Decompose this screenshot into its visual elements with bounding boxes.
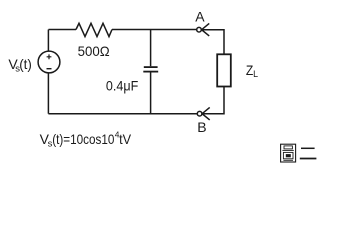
voltage source Vs circle <box>38 51 60 73</box>
svg-text:(t)=10cos10: (t)=10cos10 <box>52 131 114 147</box>
value label 500 ohm <box>78 43 110 59</box>
minus sign inside source <box>47 68 52 70</box>
wire: from arrow A to top-right corner and down to ZL <box>202 30 224 55</box>
wire: capacitor branch lower vertical <box>150 73 152 114</box>
plus sign inside source <box>47 54 52 59</box>
wire: left vertical below source <box>47 73 49 114</box>
arrow into terminal A <box>202 23 210 36</box>
label Vs(t) source <box>8 56 31 75</box>
node B open terminal circle <box>197 111 202 116</box>
svg-text:B: B <box>197 119 206 135</box>
svg-text:0.4μF: 0.4μF <box>106 77 138 93</box>
load ZL rectangle <box>217 54 231 86</box>
node A open terminal circle <box>197 27 202 32</box>
svg-text:(t): (t) <box>19 56 32 72</box>
svg-text:A: A <box>195 9 205 25</box>
wire: bottom horizontal from terminal B to source <box>48 113 197 115</box>
value label 0.4uF <box>106 77 138 93</box>
formula Vs(t)=10cos10^4 tV <box>40 129 132 149</box>
capacitor C bottom plate <box>143 71 158 73</box>
wire: left vertical above source <box>47 30 49 52</box>
wire: top horizontal from resistor to terminal A <box>112 29 197 31</box>
arrow into terminal B <box>202 107 210 120</box>
label ZL <box>246 62 258 79</box>
svg-text:500Ω: 500Ω <box>78 43 110 59</box>
resistor R 500ohm zigzag <box>76 23 112 36</box>
svg-text:tV: tV <box>119 131 132 147</box>
node label A <box>195 9 205 25</box>
node label B <box>197 119 206 135</box>
svg-text:L: L <box>253 69 258 79</box>
wire: from ZL bottom down and left to arrow B <box>202 87 224 114</box>
wire: capacitor branch upper vertical <box>150 30 152 67</box>
wire: top-left horizontal from source to resistor <box>49 29 77 31</box>
chinese caption: character er (two) hand-drawn <box>300 148 317 158</box>
capacitor C top plate <box>144 66 158 68</box>
chinese caption: character tu (figure) hand-drawn <box>281 144 296 162</box>
